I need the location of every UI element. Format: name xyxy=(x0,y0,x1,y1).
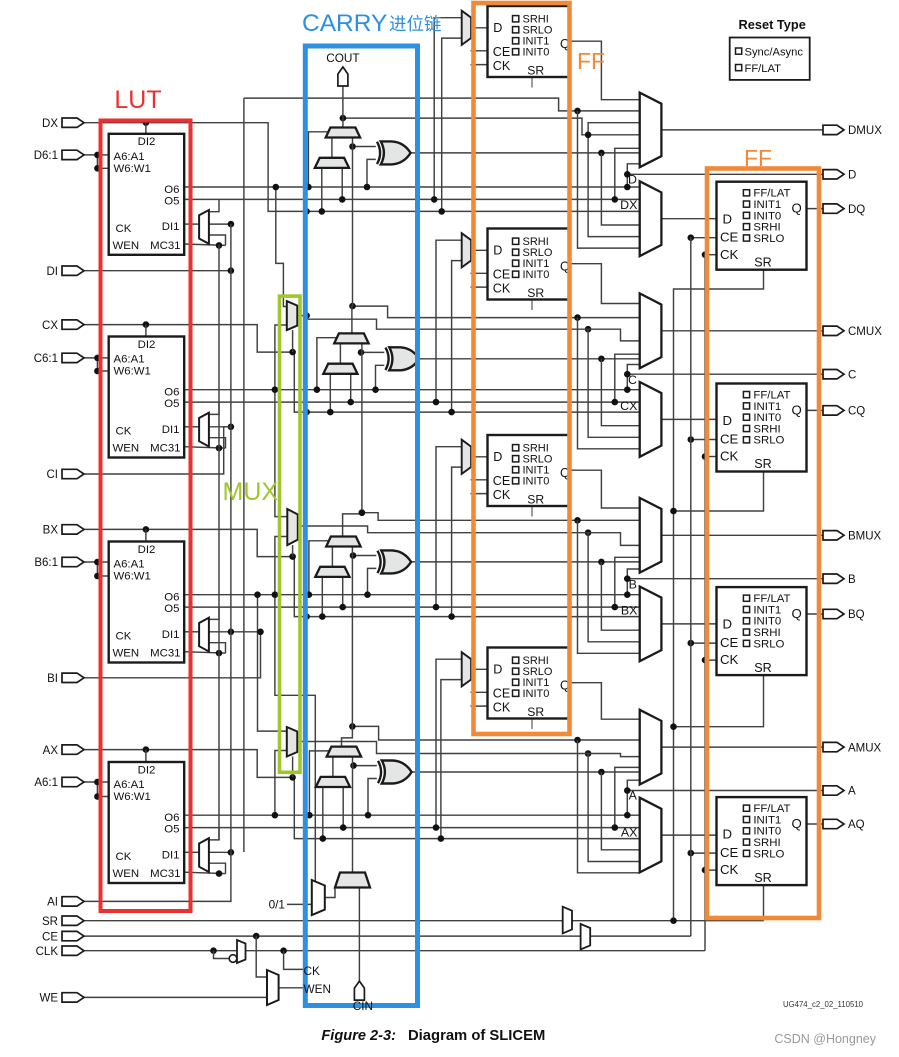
svg-text:O5: O5 xyxy=(164,824,179,836)
svg-text:FF/LAT: FF/LAT xyxy=(753,188,790,200)
svg-text:CQ: CQ xyxy=(848,406,865,418)
svg-text:CK: CK xyxy=(720,449,739,464)
svg-text:D: D xyxy=(493,663,502,677)
svg-text:DI2: DI2 xyxy=(138,339,156,351)
svg-text:SR: SR xyxy=(754,457,772,471)
svg-text:CE: CE xyxy=(720,230,739,245)
svg-text:BX: BX xyxy=(43,525,59,537)
svg-text:SRLO: SRLO xyxy=(753,233,784,245)
svg-text:MC31: MC31 xyxy=(150,443,180,455)
svg-text:O6: O6 xyxy=(164,387,179,399)
svg-text:INIT1: INIT1 xyxy=(753,604,781,616)
svg-text:D: D xyxy=(723,413,733,428)
svg-text:SRLO: SRLO xyxy=(753,638,784,650)
svg-text:CK: CK xyxy=(720,652,739,667)
svg-text:CE: CE xyxy=(493,45,511,59)
svg-text:SR: SR xyxy=(527,286,544,300)
svg-text:AMUX: AMUX xyxy=(848,742,882,754)
svg-text:CLK: CLK xyxy=(36,946,59,958)
svg-text:AX: AX xyxy=(621,825,638,839)
svg-text:DI2: DI2 xyxy=(138,136,156,148)
svg-text:CI: CI xyxy=(47,469,59,481)
svg-text:INIT0: INIT0 xyxy=(753,412,781,424)
svg-text:BMUX: BMUX xyxy=(848,531,882,543)
svg-text:CK: CK xyxy=(493,59,511,73)
svg-text:DI1: DI1 xyxy=(162,629,180,641)
svg-text:D: D xyxy=(723,211,733,226)
svg-text:FF/LAT: FF/LAT xyxy=(753,803,790,815)
svg-text:AI: AI xyxy=(47,897,58,909)
svg-text:A: A xyxy=(629,789,638,803)
svg-text:CK: CK xyxy=(720,862,739,877)
svg-text:C: C xyxy=(848,369,856,381)
svg-text:CE: CE xyxy=(720,635,739,650)
svg-text:INIT0: INIT0 xyxy=(523,476,550,488)
svg-text:CE: CE xyxy=(493,687,511,701)
svg-text:CX: CX xyxy=(620,399,637,413)
svg-text:B6:1: B6:1 xyxy=(34,557,58,569)
svg-text:A6:A1: A6:A1 xyxy=(114,354,145,366)
svg-text:AX: AX xyxy=(43,745,59,757)
svg-text:CARRY: CARRY xyxy=(302,10,387,37)
svg-text:DX: DX xyxy=(42,118,58,130)
svg-text:CMUX: CMUX xyxy=(848,326,882,338)
svg-text:Reset Type: Reset Type xyxy=(739,17,806,32)
svg-text:BQ: BQ xyxy=(848,609,865,621)
svg-text:DI2: DI2 xyxy=(138,764,156,776)
svg-text:CIN: CIN xyxy=(353,999,373,1013)
svg-text:DI1: DI1 xyxy=(162,221,180,233)
svg-text:FF: FF xyxy=(744,145,772,171)
svg-text:FF: FF xyxy=(577,48,605,74)
svg-text:CK: CK xyxy=(304,964,321,978)
svg-text:SRLO: SRLO xyxy=(753,435,784,447)
svg-text:INIT1: INIT1 xyxy=(753,814,781,826)
svg-text:D: D xyxy=(723,617,733,632)
svg-text:SR: SR xyxy=(42,916,58,928)
svg-text:FF/LAT: FF/LAT xyxy=(753,593,790,605)
svg-text:INIT0: INIT0 xyxy=(523,269,550,281)
svg-text:CK: CK xyxy=(116,851,132,863)
svg-text:UG474_c2_02_110510: UG474_c2_02_110510 xyxy=(783,1000,864,1009)
svg-text:WEN: WEN xyxy=(113,648,140,660)
svg-text:CK: CK xyxy=(493,488,511,502)
svg-text:A: A xyxy=(848,786,856,798)
svg-text:INIT0: INIT0 xyxy=(523,688,550,700)
svg-text:CK: CK xyxy=(116,223,132,235)
svg-text:SR: SR xyxy=(754,661,772,675)
svg-text:DX: DX xyxy=(620,198,637,212)
svg-text:D: D xyxy=(723,827,733,842)
svg-text:O6: O6 xyxy=(164,592,179,604)
svg-text:D: D xyxy=(493,244,502,258)
svg-text:BI: BI xyxy=(47,673,58,685)
svg-text:Figure 2-3:: Figure 2-3: xyxy=(321,1028,396,1044)
svg-text:LUT: LUT xyxy=(114,86,161,114)
svg-text:Diagram of SLICEM: Diagram of SLICEM xyxy=(408,1028,545,1044)
svg-text:INIT0: INIT0 xyxy=(753,616,781,628)
svg-text:Sync/Async: Sync/Async xyxy=(745,47,804,59)
svg-text:Q: Q xyxy=(792,201,802,216)
svg-text:O6: O6 xyxy=(164,812,179,824)
svg-text:0/1: 0/1 xyxy=(269,897,285,911)
svg-text:BX: BX xyxy=(621,603,638,617)
svg-text:W6:W1: W6:W1 xyxy=(114,791,151,803)
svg-text:O5: O5 xyxy=(164,195,179,207)
svg-text:CK: CK xyxy=(720,247,739,262)
svg-text:SR: SR xyxy=(527,63,544,77)
svg-text:B: B xyxy=(848,574,856,586)
svg-text:B: B xyxy=(629,578,637,592)
svg-text:SRHI: SRHI xyxy=(753,423,780,435)
svg-text:INIT1: INIT1 xyxy=(753,199,781,211)
svg-text:O5: O5 xyxy=(164,398,179,410)
svg-text:W6:W1: W6:W1 xyxy=(114,366,151,378)
svg-text:INIT1: INIT1 xyxy=(753,401,781,413)
svg-text:MC31: MC31 xyxy=(150,240,180,252)
svg-text:COUT: COUT xyxy=(326,51,359,65)
svg-text:Q: Q xyxy=(792,606,802,621)
svg-text:C6:1: C6:1 xyxy=(34,353,58,365)
svg-text:MC31: MC31 xyxy=(150,868,180,880)
svg-text:A6:A1: A6:A1 xyxy=(114,779,145,791)
svg-text:O6: O6 xyxy=(164,184,179,196)
svg-text:DI1: DI1 xyxy=(162,849,180,861)
svg-text:SRLO: SRLO xyxy=(753,848,784,860)
svg-text:WEN: WEN xyxy=(113,443,140,455)
svg-text:WEN: WEN xyxy=(113,240,140,252)
svg-text:DQ: DQ xyxy=(848,204,865,216)
svg-text:CX: CX xyxy=(42,320,58,332)
svg-text:DMUX: DMUX xyxy=(848,125,882,137)
svg-text:CSDN @Hongney: CSDN @Hongney xyxy=(774,1032,876,1046)
svg-text:SRHI: SRHI xyxy=(753,627,780,639)
svg-text:SR: SR xyxy=(527,492,544,506)
svg-text:WE: WE xyxy=(39,993,58,1005)
svg-text:SRHI: SRHI xyxy=(753,222,780,234)
svg-text:SRHI: SRHI xyxy=(753,837,780,849)
svg-text:DI: DI xyxy=(47,266,59,278)
svg-text:WEN: WEN xyxy=(113,868,140,880)
svg-text:W6:W1: W6:W1 xyxy=(114,571,151,583)
svg-text:CE: CE xyxy=(493,474,511,488)
svg-text:A6:A1: A6:A1 xyxy=(114,151,145,163)
svg-text:C: C xyxy=(628,373,637,387)
svg-text:FF/LAT: FF/LAT xyxy=(753,390,790,402)
svg-text:D6:1: D6:1 xyxy=(34,150,58,162)
svg-text:Q: Q xyxy=(792,816,802,831)
svg-text:AQ: AQ xyxy=(848,819,865,831)
svg-text:MC31: MC31 xyxy=(150,648,180,660)
svg-text:SR: SR xyxy=(754,255,772,269)
svg-text:CK: CK xyxy=(116,631,132,643)
svg-text:CE: CE xyxy=(720,431,739,446)
svg-text:进位链: 进位链 xyxy=(389,14,442,34)
svg-text:INIT0: INIT0 xyxy=(753,826,781,838)
svg-text:CE: CE xyxy=(42,931,58,943)
svg-text:WEN: WEN xyxy=(304,982,332,996)
svg-text:FF/LAT: FF/LAT xyxy=(745,63,782,75)
svg-text:D: D xyxy=(848,170,856,182)
svg-text:A6:1: A6:1 xyxy=(34,777,58,789)
svg-text:D: D xyxy=(628,172,637,186)
svg-text:A6:A1: A6:A1 xyxy=(114,559,145,571)
svg-text:INIT0: INIT0 xyxy=(753,210,781,222)
svg-text:SR: SR xyxy=(527,705,544,719)
svg-text:DI2: DI2 xyxy=(138,544,156,556)
svg-text:D: D xyxy=(493,450,502,464)
svg-text:INIT0: INIT0 xyxy=(523,47,550,59)
svg-text:MUX: MUX xyxy=(223,478,279,506)
svg-text:CK: CK xyxy=(493,700,511,714)
svg-text:O5: O5 xyxy=(164,603,179,615)
svg-text:D: D xyxy=(493,21,502,35)
svg-text:CE: CE xyxy=(720,845,739,860)
svg-text:W6:W1: W6:W1 xyxy=(114,163,151,175)
svg-text:CK: CK xyxy=(116,426,132,438)
svg-text:DI1: DI1 xyxy=(162,424,180,436)
svg-text:CK: CK xyxy=(493,281,511,295)
svg-text:CE: CE xyxy=(493,268,511,282)
svg-text:Q: Q xyxy=(792,403,802,418)
svg-text:SR: SR xyxy=(754,871,772,885)
